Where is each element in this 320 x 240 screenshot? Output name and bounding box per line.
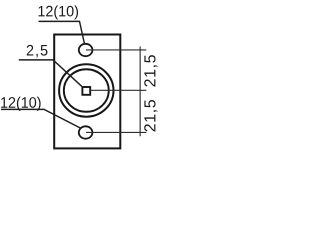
boss outer circle xyxy=(59,64,113,116)
extension line bottom hole center xyxy=(86,131,146,133)
extension line plate center xyxy=(91,89,147,91)
label 12(10) left xyxy=(1,97,41,111)
boss inner circle xyxy=(64,69,109,112)
leader line label 2,5 xyxy=(19,60,82,86)
extension line top hole center xyxy=(86,49,146,51)
dimension line vertical right xyxy=(139,47,141,137)
plate outline xyxy=(54,35,120,149)
leader line label 12(10) left xyxy=(1,109,80,128)
label 2,5 xyxy=(27,45,48,58)
leader line label 12(10) top xyxy=(39,21,85,44)
center square hole 2,5 xyxy=(82,87,90,95)
hole top xyxy=(79,44,93,56)
label 21,5 lower (rotated) xyxy=(144,100,157,131)
label 21,5 upper (rotated) xyxy=(144,55,157,86)
hole bottom xyxy=(79,126,93,138)
label 12(10) top xyxy=(38,5,78,19)
